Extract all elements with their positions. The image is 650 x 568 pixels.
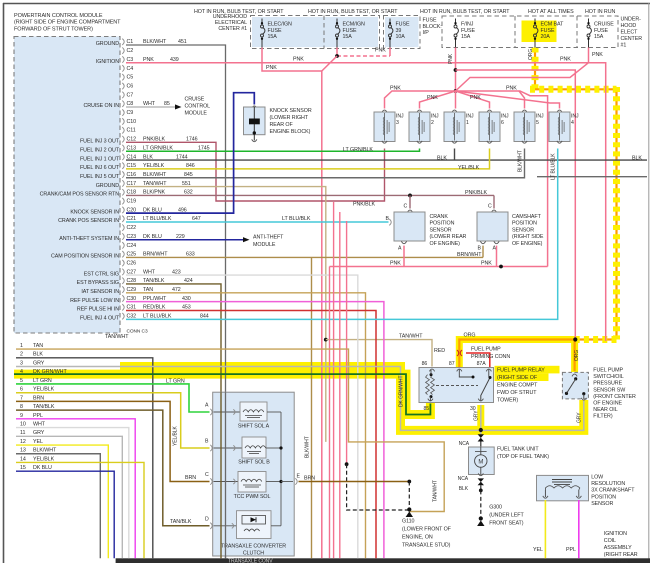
svg-text:HOT IN RUN, BULB TEST, OR STAR: HOT IN RUN, BULB TEST, OR START — [308, 9, 398, 15]
svg-text:CRUISE: CRUISE — [185, 97, 205, 103]
svg-text:C22: C22 — [127, 225, 137, 231]
svg-text:CENTER: CENTER — [621, 36, 643, 42]
svg-text:15: 15 — [20, 465, 26, 471]
svg-text:I/P: I/P — [423, 30, 430, 36]
svg-text:BRN: BRN — [304, 475, 315, 481]
svg-text:FWD OF STRUT: FWD OF STRUT — [497, 390, 537, 396]
svg-text:15A: 15A — [268, 34, 278, 40]
svg-text:3: 3 — [20, 360, 23, 366]
svg-text:C: C — [488, 204, 492, 210]
svg-text:NCA: NCA — [458, 476, 469, 482]
svg-text:SENSOR SW: SENSOR SW — [593, 387, 626, 393]
svg-text:PRESSURE: PRESSURE — [593, 381, 622, 387]
svg-text:TAN/BLK: TAN/BLK — [33, 404, 55, 410]
svg-text:C2: C2 — [127, 48, 134, 54]
svg-text:INJ: INJ — [571, 114, 579, 120]
svg-text:(LOWER RIGHT: (LOWER RIGHT — [270, 115, 309, 121]
svg-text:BLK: BLK — [33, 352, 43, 358]
svg-text:3X CRANKSHAFT: 3X CRANKSHAFT — [591, 488, 635, 494]
svg-text:RESOLUTION: RESOLUTION — [591, 481, 625, 487]
svg-text:FORWARD OF STRUT TOWER): FORWARD OF STRUT TOWER) — [14, 26, 93, 32]
svg-text:PNK: PNK — [266, 65, 277, 71]
svg-text:BRN: BRN — [33, 395, 44, 401]
svg-text:(UNDER LEFT: (UNDER LEFT — [489, 513, 524, 519]
svg-text:BLK: BLK — [437, 156, 447, 162]
svg-text:FUSE: FUSE — [268, 28, 282, 34]
svg-text:KNOCK SENSOR IN: KNOCK SENSOR IN — [70, 209, 119, 215]
svg-text:85: 85 — [424, 406, 430, 412]
svg-text:POSITION: POSITION — [512, 221, 537, 227]
svg-text:F/INJ: F/INJ — [461, 22, 474, 28]
svg-text:FUEL INJ 5 OUT: FUEL INJ 5 OUT — [80, 174, 120, 180]
svg-text:BRN: BRN — [185, 475, 196, 481]
svg-text:EST BYPASS SIG: EST BYPASS SIG — [77, 280, 119, 286]
svg-text:GRY: GRY — [474, 410, 480, 421]
svg-text:SENSOR: SENSOR — [591, 501, 613, 507]
svg-text:REAR OF: REAR OF — [270, 122, 294, 128]
svg-text:BLK: BLK — [632, 156, 642, 162]
svg-text:7: 7 — [20, 395, 23, 401]
svg-text:HOT IN RUN: HOT IN RUN — [585, 9, 615, 15]
svg-text:FRONT SEAT): FRONT SEAT) — [489, 521, 524, 527]
svg-text:NEAR OIL: NEAR OIL — [593, 407, 617, 413]
svg-text:9: 9 — [20, 413, 23, 419]
svg-text:1: 1 — [466, 120, 469, 126]
svg-text:OF ENGINE: OF ENGINE — [604, 559, 633, 563]
svg-text:BLK/WHT: BLK/WHT — [143, 39, 167, 45]
svg-text:IGNITION: IGNITION — [96, 59, 119, 65]
svg-text:C7: C7 — [127, 92, 134, 98]
svg-text:FUEL INJ 6 OUT: FUEL INJ 6 OUT — [80, 165, 120, 171]
svg-text:CONN C3: CONN C3 — [127, 329, 148, 335]
svg-text:#1: #1 — [621, 43, 627, 49]
svg-text:ANTI-THEFT SYSTEM IN: ANTI-THEFT SYSTEM IN — [59, 236, 119, 242]
svg-text:ECM/IGN: ECM/IGN — [343, 22, 366, 28]
svg-text:CRANK POS SENSOR IN: CRANK POS SENSOR IN — [58, 218, 119, 224]
svg-text:GRY: GRY — [33, 360, 45, 366]
svg-text:15A: 15A — [343, 34, 353, 40]
svg-text:PNK: PNK — [560, 57, 571, 63]
svg-text:KNOCK SENSOR: KNOCK SENSOR — [270, 108, 312, 114]
svg-text:85: 85 — [164, 101, 170, 107]
svg-text:REF PULSE HI IN: REF PULSE HI IN — [77, 307, 119, 313]
svg-text:SHIFT SOL B: SHIFT SOL B — [238, 460, 270, 466]
svg-text:MODULE: MODULE — [253, 242, 276, 248]
svg-text:REF PULSE LOW IN: REF PULSE LOW IN — [70, 298, 119, 304]
svg-text:PNK: PNK — [592, 52, 603, 58]
svg-text:PNK/BLK: PNK/BLK — [465, 190, 488, 196]
svg-text:(LOWER FRONT OF: (LOWER FRONT OF — [402, 527, 452, 533]
svg-text:INJ: INJ — [396, 114, 404, 120]
svg-text:FUEL PUMP RELAY: FUEL PUMP RELAY — [497, 367, 545, 373]
svg-text:(RIGHT SIDE OF: (RIGHT SIDE OF — [497, 375, 538, 381]
svg-text:BLK/WHT: BLK/WHT — [518, 150, 524, 172]
svg-text:ECM BAT: ECM BAT — [541, 22, 565, 28]
svg-text:CLUTCH: CLUTCH — [243, 551, 264, 557]
svg-text:YEL/BLK: YEL/BLK — [458, 165, 480, 171]
svg-text:G110: G110 — [402, 519, 414, 525]
svg-text:(RIGHT SIDE OF ENGINE COMPARTM: (RIGHT SIDE OF ENGINE COMPARTMENT — [14, 20, 121, 26]
svg-text:ENGINE BLOCK): ENGINE BLOCK) — [270, 129, 311, 135]
svg-text:ENGINE, ON: ENGINE, ON — [402, 535, 433, 541]
svg-text:HOT IN RUN, BULB TEST, OR STAR: HOT IN RUN, BULB TEST, OR START — [420, 9, 510, 15]
svg-text:TRANSAXLE CONVERTER: TRANSAXLE CONVERTER — [221, 544, 286, 550]
svg-text:PNK: PNK — [427, 95, 438, 101]
svg-text:WHT: WHT — [33, 421, 46, 427]
svg-text:TAN: TAN — [33, 343, 43, 349]
svg-text:PPL: PPL — [33, 413, 43, 419]
svg-text:OF ENGINE): OF ENGINE) — [512, 241, 543, 247]
svg-text:FUSE: FUSE — [396, 22, 410, 28]
svg-text:TAN/BLK: TAN/BLK — [170, 519, 192, 525]
svg-text:C1: C1 — [127, 39, 134, 45]
svg-text:LT GRN: LT GRN — [33, 378, 52, 384]
svg-text:PNK: PNK — [390, 86, 401, 92]
svg-text:FUEL INJ 3 OUT: FUEL INJ 3 OUT — [80, 139, 120, 145]
svg-text:PPL: PPL — [566, 547, 576, 553]
svg-text:YEL/BLK: YEL/BLK — [173, 426, 179, 446]
svg-text:LT BLU/BLK: LT BLU/BLK — [282, 216, 311, 222]
svg-text:SHIFT SOL A: SHIFT SOL A — [238, 424, 270, 430]
svg-text:ENGINE COMPT: ENGINE COMPT — [497, 382, 538, 388]
svg-text:FILTER): FILTER) — [593, 414, 613, 420]
svg-text:GROUND: GROUND — [96, 183, 119, 189]
svg-text:YEL/BLK: YEL/BLK — [33, 456, 55, 462]
svg-text:PNK: PNK — [293, 57, 304, 63]
svg-text:FUEL INJ 4 OUT: FUEL INJ 4 OUT — [80, 316, 120, 322]
svg-text:FUSE: FUSE — [594, 28, 608, 34]
svg-text:(FRONT CENTER: (FRONT CENTER — [593, 394, 636, 400]
svg-text:CAM POSITION SENSOR IN: CAM POSITION SENSOR IN — [51, 254, 119, 260]
svg-text:C8: C8 — [127, 101, 134, 107]
svg-text:86: 86 — [422, 361, 428, 367]
svg-text:YEL: YEL — [533, 547, 543, 553]
svg-text:(RIGHT REAR: (RIGHT REAR — [604, 552, 638, 558]
svg-text:1: 1 — [20, 343, 23, 349]
svg-text:COIL: COIL — [604, 538, 616, 544]
svg-text:POSITION: POSITION — [591, 494, 616, 500]
svg-text:BLK/WHT: BLK/WHT — [305, 436, 311, 458]
svg-text:(TOP OF FUEL TANK): (TOP OF FUEL TANK) — [497, 454, 549, 460]
svg-text:BLOCK:: BLOCK: — [423, 24, 442, 30]
svg-text:PNK: PNK — [390, 261, 401, 267]
svg-text:10A: 10A — [396, 34, 406, 40]
svg-text:C19: C19 — [127, 199, 137, 205]
svg-text:14: 14 — [20, 456, 26, 462]
svg-text:TRANSAXLE CONV: TRANSAXLE CONV — [228, 559, 273, 564]
svg-text:M: M — [478, 459, 483, 465]
svg-text:INJ: INJ — [431, 114, 439, 120]
svg-text:5: 5 — [20, 378, 23, 384]
svg-text:LT GRN: LT GRN — [166, 378, 185, 384]
svg-text:OF ENGINE: OF ENGINE — [593, 401, 622, 407]
svg-text:DK GRN/WHT: DK GRN/WHT — [399, 376, 405, 407]
svg-text:11: 11 — [20, 430, 25, 436]
svg-text:12: 12 — [20, 439, 26, 445]
svg-text:ELECT: ELECT — [621, 30, 639, 36]
svg-text:CRANK/CAM POS SENSOR RTN: CRANK/CAM POS SENSOR RTN — [40, 192, 120, 198]
svg-text:(RIGHT SIDE: (RIGHT SIDE — [512, 234, 544, 240]
svg-text:6: 6 — [501, 120, 504, 126]
svg-text:8: 8 — [20, 404, 23, 410]
svg-text:OF ENGINE): OF ENGINE) — [430, 241, 461, 247]
svg-text:PNK: PNK — [448, 53, 454, 64]
svg-text:39: 39 — [396, 28, 402, 34]
svg-text:YEL: YEL — [33, 439, 43, 445]
svg-text:SENSOR: SENSOR — [430, 227, 452, 233]
svg-text:C5: C5 — [127, 75, 134, 81]
svg-text:C: C — [205, 472, 209, 478]
svg-text:INJ: INJ — [536, 114, 544, 120]
svg-text:FUSE: FUSE — [423, 18, 437, 24]
svg-text:6: 6 — [20, 387, 23, 393]
svg-text:ELEC/IGN: ELEC/IGN — [268, 22, 293, 28]
svg-text:CRUISE: CRUISE — [594, 22, 614, 28]
svg-text:PNK: PNK — [470, 95, 481, 101]
svg-text:20A: 20A — [541, 34, 551, 40]
svg-text:UNDER-: UNDER- — [621, 17, 642, 23]
svg-text:FUSE: FUSE — [343, 28, 357, 34]
svg-text:POWERTRAIN CONTROL MODULE: POWERTRAIN CONTROL MODULE — [14, 13, 103, 19]
svg-text:15A: 15A — [461, 34, 471, 40]
svg-text:GRY: GRY — [33, 430, 45, 436]
svg-text:FUEL INJ 1 OUT: FUEL INJ 1 OUT — [80, 156, 120, 162]
svg-text:NCA: NCA — [459, 441, 470, 447]
svg-text:(LOWER REAR: (LOWER REAR — [430, 234, 467, 240]
svg-text:INJ: INJ — [466, 114, 474, 120]
svg-text:ANTI-THEFT: ANTI-THEFT — [253, 235, 284, 241]
svg-text:FUEL TANK UNIT: FUEL TANK UNIT — [497, 447, 539, 453]
svg-text:IGNITION: IGNITION — [604, 531, 627, 537]
svg-text:GRY: GRY — [577, 412, 583, 423]
svg-text:451: 451 — [178, 39, 187, 45]
svg-text:MODULE: MODULE — [185, 111, 208, 117]
svg-text:BRN/WHT: BRN/WHT — [457, 252, 482, 258]
svg-text:LT GRN/BLK: LT GRN/BLK — [343, 147, 373, 153]
svg-text:WHT: WHT — [143, 101, 156, 107]
svg-text:EST CTRL SIG: EST CTRL SIG — [84, 271, 119, 277]
svg-text:TAN/WHT: TAN/WHT — [399, 333, 423, 339]
svg-text:SENSOR: SENSOR — [512, 227, 534, 233]
svg-text:D: D — [205, 516, 209, 522]
svg-text:FUEL PUMP: FUEL PUMP — [471, 346, 501, 352]
svg-text:CENTER #1: CENTER #1 — [218, 26, 247, 32]
svg-text:3: 3 — [396, 120, 399, 126]
svg-text:13: 13 — [20, 448, 26, 454]
svg-text:TCC PWM SOL: TCC PWM SOL — [234, 494, 271, 500]
svg-text:4: 4 — [571, 120, 574, 126]
svg-text:BLK/WHT: BLK/WHT — [33, 448, 57, 454]
svg-text:FUSE: FUSE — [541, 28, 555, 34]
svg-text:15A: 15A — [594, 34, 604, 40]
svg-text:YEL/BLK: YEL/BLK — [33, 387, 55, 393]
svg-text:87A: 87A — [477, 361, 487, 367]
svg-text:5: 5 — [536, 120, 539, 126]
svg-text:BLK: BLK — [459, 486, 469, 492]
svg-text:10: 10 — [20, 421, 26, 427]
svg-text:PRIMING CONN: PRIMING CONN — [471, 354, 510, 360]
svg-text:TAN/WHT: TAN/WHT — [105, 334, 129, 340]
svg-text:HOOD: HOOD — [621, 23, 637, 29]
svg-text:FUEL PUMP: FUEL PUMP — [593, 368, 623, 374]
svg-text:POSITION: POSITION — [430, 221, 455, 227]
svg-text:PNK: PNK — [375, 48, 386, 54]
svg-text:DK BLU: DK BLU — [33, 465, 52, 471]
svg-text:HOT AT ALL TIMES: HOT AT ALL TIMES — [528, 9, 574, 15]
svg-text:SWITCH/OIL: SWITCH/OIL — [593, 374, 623, 380]
svg-text:TRANSAXLE STUD): TRANSAXLE STUD) — [402, 543, 451, 549]
svg-text:C4: C4 — [127, 66, 134, 72]
svg-text:PNK: PNK — [481, 261, 492, 267]
svg-text:C6: C6 — [127, 83, 134, 89]
svg-text:PNK/BLK: PNK/BLK — [353, 202, 376, 208]
svg-text:RED: RED — [434, 348, 445, 354]
svg-text:G300: G300 — [489, 505, 502, 511]
svg-text:ORG: ORG — [528, 49, 534, 60]
svg-text:TOWER): TOWER) — [497, 397, 518, 403]
svg-text:2: 2 — [20, 352, 23, 358]
svg-text:LT BLU/BLK: LT BLU/BLK — [551, 153, 557, 180]
svg-text:INJ: INJ — [501, 114, 509, 120]
svg-text:FUSE: FUSE — [461, 28, 475, 34]
svg-text:CRANK: CRANK — [430, 214, 449, 220]
svg-text:2: 2 — [431, 120, 434, 126]
svg-text:GROUND: GROUND — [96, 41, 119, 47]
svg-text:CRUISE ON IN: CRUISE ON IN — [83, 103, 119, 109]
svg-text:C11: C11 — [127, 128, 136, 134]
svg-text:CONTROL: CONTROL — [185, 104, 211, 110]
svg-text:ORG: ORG — [464, 333, 476, 339]
svg-text:TAN/WHT: TAN/WHT — [433, 480, 439, 502]
svg-text:C10: C10 — [127, 119, 137, 125]
svg-text:IAT SENSOR IN: IAT SENSOR IN — [81, 289, 119, 295]
svg-text:FUEL INJ 2 OUT: FUEL INJ 2 OUT — [80, 147, 120, 153]
svg-text:CAMSHAFT: CAMSHAFT — [512, 214, 542, 220]
svg-text:C26: C26 — [127, 260, 137, 266]
svg-text:ASSEMBLY: ASSEMBLY — [604, 545, 632, 551]
svg-text:87: 87 — [449, 361, 455, 367]
svg-text:C9: C9 — [127, 110, 134, 116]
svg-text:ORG: ORG — [574, 350, 580, 361]
svg-text:LOW: LOW — [591, 474, 604, 480]
svg-text:C24: C24 — [127, 243, 137, 249]
svg-text:C: C — [404, 204, 408, 210]
